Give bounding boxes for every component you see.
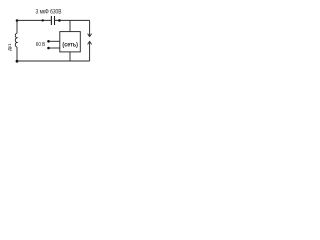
wire right vertical lower <box>89 42 91 61</box>
background <box>0 0 100 75</box>
node dot top-left corner <box>16 19 19 22</box>
arrowhead up (spark gap lower electrode) <box>88 41 92 44</box>
capacitor C1 plates <box>51 16 54 25</box>
box unit (Сеть) <box>60 32 81 52</box>
node dot supply lower terminal <box>47 47 50 50</box>
arrowhead down (spark gap upper electrode) <box>88 34 92 37</box>
node dot left of capacitor <box>42 19 44 21</box>
svg-text:3 мкФ 630В: 3 мкФ 630В <box>36 9 62 16</box>
svg-text:60 В: 60 В <box>36 42 46 48</box>
svg-text:(сеть): (сеть) <box>62 41 78 48</box>
node dot bottom-left corner <box>16 60 19 63</box>
wire right vertical upper (to spark gap) <box>89 20 91 36</box>
inductor Др1 coil <box>15 33 17 47</box>
wire left vertical lower <box>16 47 18 61</box>
wire box top lead <box>69 20 71 31</box>
node dot supply upper terminal <box>47 40 50 43</box>
svg-text:Др1: Др1 <box>7 43 12 51</box>
node dot right of capacitor <box>58 19 61 22</box>
wire supply lead upper <box>49 40 60 42</box>
wire bottom horizontal <box>17 60 90 62</box>
wire top horizontal <box>17 19 90 21</box>
wire left vertical upper <box>16 20 18 33</box>
wire supply lead lower <box>49 47 60 49</box>
wire box bottom lead <box>69 52 71 61</box>
